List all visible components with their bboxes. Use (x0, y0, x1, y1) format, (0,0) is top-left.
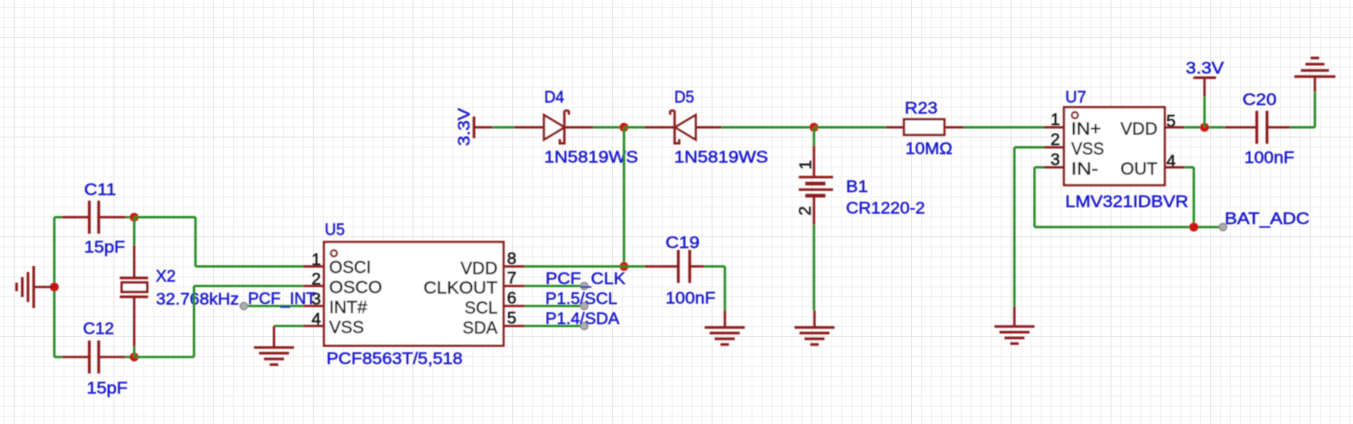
svg-text:CLKOUT: CLKOUT (424, 277, 498, 297)
svg-text:3: 3 (1051, 150, 1060, 169)
svg-text:5: 5 (507, 309, 516, 328)
svg-text:BAT_ADC: BAT_ADC (1225, 209, 1310, 228)
svg-text:4: 4 (312, 310, 321, 329)
svg-text:B1: B1 (846, 177, 868, 196)
svg-text:VSS: VSS (1071, 139, 1104, 159)
svg-text:IN-: IN- (1071, 159, 1098, 179)
svg-text:1N5819WS: 1N5819WS (674, 148, 768, 167)
svg-text:100nF: 100nF (1244, 148, 1294, 167)
svg-text:1: 1 (312, 250, 321, 269)
svg-text:P1.5/SCL: P1.5/SCL (545, 289, 617, 308)
svg-text:D5: D5 (674, 87, 694, 106)
svg-text:VDD: VDD (1121, 119, 1158, 139)
svg-text:C20: C20 (1243, 90, 1277, 109)
svg-text:2: 2 (1051, 130, 1060, 149)
svg-text:VDD: VDD (461, 258, 498, 278)
svg-text:OUT: OUT (1121, 159, 1158, 179)
svg-text:OSCO: OSCO (329, 277, 382, 297)
svg-text:SCL: SCL (465, 297, 498, 317)
svg-text:8: 8 (507, 249, 516, 268)
svg-text:IN+: IN+ (1071, 119, 1101, 139)
svg-text:2: 2 (312, 270, 321, 289)
svg-text:PCF8563T/5,518: PCF8563T/5,518 (327, 349, 463, 368)
svg-text:2: 2 (795, 206, 814, 215)
svg-text:C12: C12 (83, 319, 114, 338)
svg-text:15pF: 15pF (87, 379, 128, 398)
svg-text:X2: X2 (156, 266, 176, 285)
svg-text:6: 6 (507, 289, 516, 308)
svg-text:3.3V: 3.3V (455, 107, 474, 146)
svg-text:INT#: INT# (329, 297, 367, 317)
svg-text:U7: U7 (1065, 88, 1086, 107)
svg-text:100nF: 100nF (666, 288, 716, 307)
svg-text:LMV321IDBVR: LMV321IDBVR (1065, 192, 1188, 211)
svg-text:3.3V: 3.3V (1186, 58, 1225, 77)
svg-text:R23: R23 (905, 98, 938, 117)
svg-text:7: 7 (507, 269, 516, 288)
svg-text:U5: U5 (325, 220, 345, 239)
svg-text:SDA: SDA (463, 317, 498, 337)
svg-text:C11: C11 (84, 180, 116, 199)
svg-text:3: 3 (312, 290, 321, 309)
svg-text:PCF_CLK: PCF_CLK (546, 269, 627, 288)
svg-text:15pF: 15pF (84, 238, 125, 257)
svg-text:CR1220-2: CR1220-2 (846, 198, 925, 217)
svg-text:D4: D4 (544, 87, 564, 106)
svg-text:1: 1 (1051, 110, 1060, 129)
svg-text:1: 1 (796, 160, 815, 169)
svg-text:P1.4/SDA: P1.4/SDA (545, 309, 620, 328)
svg-text:OSCI: OSCI (329, 257, 371, 277)
svg-text:32.768kHz: 32.768kHz (156, 289, 239, 308)
svg-text:C19: C19 (666, 233, 700, 252)
svg-text:VSS: VSS (329, 317, 364, 337)
svg-text:10MΩ: 10MΩ (905, 139, 952, 158)
